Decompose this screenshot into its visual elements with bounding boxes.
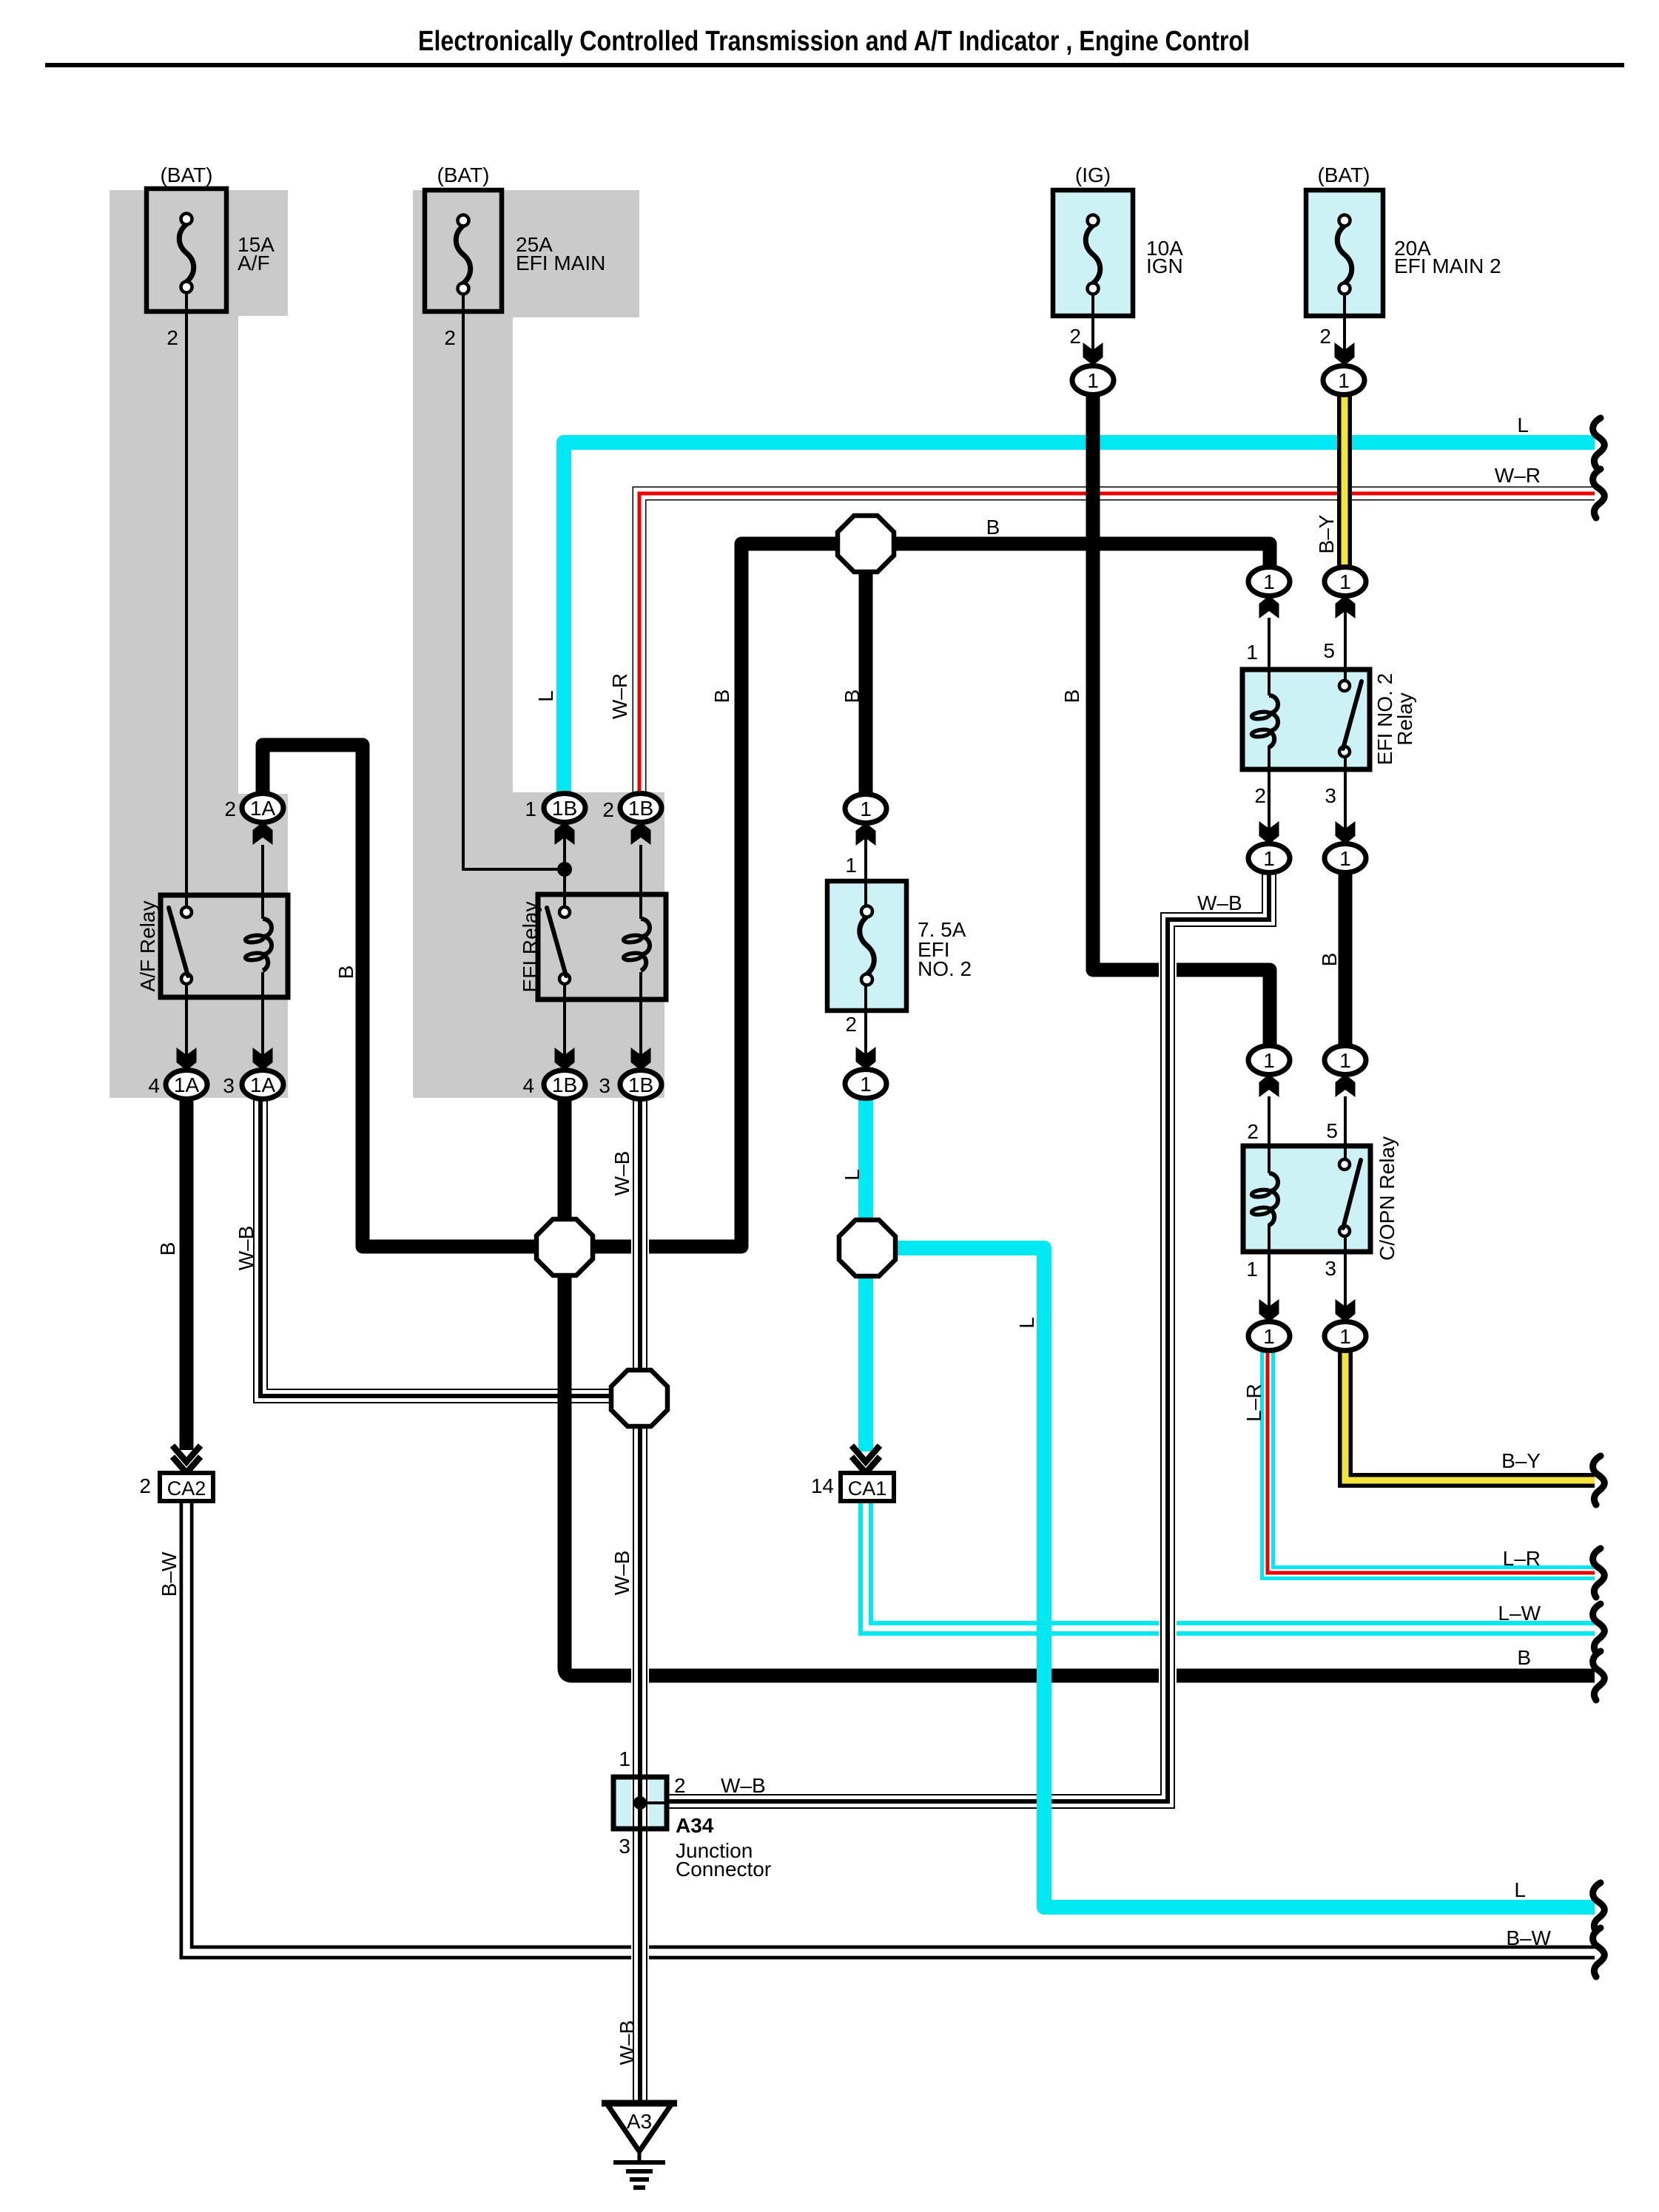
svg-text:W–B: W–B — [721, 1774, 766, 1797]
svg-text:B–Y: B–Y — [1501, 1449, 1541, 1472]
relay C/OPN coil — [1269, 1173, 1278, 1225]
arrow up into oval 1-1B — [555, 822, 575, 845]
svg-text:(IG): (IG) — [1075, 163, 1111, 186]
svg-text:1A: 1A — [174, 1073, 200, 1096]
fuse 7.5A EFI NO.2 fill — [827, 881, 906, 1011]
svg-text:2: 2 — [166, 326, 178, 349]
svg-text:4: 4 — [148, 1074, 160, 1097]
fuse 20A EFI MAIN 2 fill — [1306, 190, 1383, 316]
wire W-B: A/F relay pin3 oval down, corner right to octagon — [260, 1100, 641, 1396]
oval 1 below C/OPN pin1 — [1248, 1322, 1290, 1351]
wire: EFI NO.2 relay pin1 up — [1268, 618, 1271, 695]
wire: C/OPN relay pin2 up — [1268, 1096, 1271, 1173]
wire B-W: CA2 down, corner right to edge — [186, 1501, 1595, 1952]
oval 1 below EFI NO.2 pin3 — [1325, 844, 1366, 873]
wire B: octagon down to 7.5A fuse oval — [859, 544, 873, 802]
arrow down into oval above L-R — [1259, 1299, 1279, 1322]
oval 1 above C/OPN pin5 — [1325, 1046, 1366, 1075]
svg-text:1: 1 — [1339, 1325, 1351, 1348]
wire L: main horizontal from corner to edge, down to EFI relay pin1 oval — [564, 442, 1595, 802]
svg-text:L–R: L–R — [1242, 1383, 1265, 1421]
ground A3 — [606, 2103, 673, 2151]
svg-text:1: 1 — [1263, 847, 1275, 870]
svg-text:1: 1 — [1339, 847, 1351, 870]
svg-text:B–W: B–W — [1506, 1926, 1551, 1949]
svg-text:1: 1 — [619, 1747, 630, 1770]
wire: C/OPN relay pin1 down — [1268, 1224, 1271, 1322]
relay EFI coil — [641, 919, 650, 971]
arrow down into oval 3-1B — [631, 1048, 651, 1070]
svg-text:1A: 1A — [250, 1073, 276, 1096]
fuse 15A A/F — [147, 189, 226, 311]
wire W-R: EFI relay pin2 oval up, corner right to edge — [639, 493, 1595, 802]
svg-text:2: 2 — [444, 326, 456, 349]
svg-text:EFI MAIN 2: EFI MAIN 2 — [1394, 254, 1501, 277]
wire B overlay: EFI pin4 feed crossing W-B horizontal — [558, 1369, 572, 1424]
oval 1 above C/OPN pin2 — [1248, 1046, 1290, 1075]
svg-text:L–R: L–R — [1503, 1547, 1541, 1570]
svg-text:2: 2 — [1247, 1120, 1259, 1143]
wire: A/F relay pin4 down — [185, 982, 188, 1070]
svg-text:W–B: W–B — [235, 1226, 258, 1271]
connector CA1 — [841, 1473, 894, 1501]
continuation brace B-Y — [1593, 1456, 1605, 1505]
oval 3-1A — [242, 1070, 283, 1099]
svg-text:NO. 2: NO. 2 — [918, 957, 972, 980]
svg-text:1: 1 — [845, 854, 857, 877]
fuse 20A EFI MAIN 2 — [1306, 190, 1383, 316]
wire: A/F relay coil top — [261, 845, 264, 919]
wire B: EFI NO.2 relay pin3 oval down to C/OPN pin5 oval — [1339, 872, 1353, 1046]
arrow up into oval above 7.5A fuse — [856, 823, 876, 846]
oval 3-1B — [620, 1070, 662, 1099]
svg-text:(BAT): (BAT) — [1317, 163, 1370, 186]
relay A/F box — [161, 895, 288, 997]
relay EFI box — [538, 894, 666, 999]
grey harness area A/F — [110, 190, 288, 1098]
wire: fuse EFI MAIN pin2 down and right to junction dot — [463, 288, 565, 869]
wire L-W: CA1 down, corner right to edge — [866, 1501, 1595, 1628]
oval 1 above 7.5A fuse — [845, 795, 886, 823]
double chevron into CA1 — [852, 1446, 880, 1462]
svg-text:1: 1 — [1339, 570, 1351, 593]
arrow up into oval above EFI NO.2 pin1 — [1259, 596, 1279, 618]
oval 1 below 7.5A fuse — [845, 1070, 886, 1099]
arrow down into oval 3-1A — [253, 1048, 273, 1070]
arrow down into oval below EFI NO.2 pin2 — [1259, 821, 1279, 844]
svg-text:2: 2 — [139, 1474, 151, 1497]
wire B overlay: IGN feed crossing L and W-R — [1086, 403, 1100, 525]
wire L: 7.5A fuse oval down to CA1 — [858, 1098, 873, 1451]
svg-text:A/F: A/F — [238, 252, 270, 274]
double chevron into CA2 — [172, 1446, 201, 1462]
wire: A/F relay pin3 down — [261, 972, 264, 1070]
svg-text:B: B — [710, 689, 733, 704]
svg-text:2: 2 — [1069, 325, 1081, 348]
svg-text:1B: 1B — [628, 797, 653, 820]
svg-text:W–B: W–B — [610, 1551, 633, 1596]
svg-text:A/F Relay: A/F Relay — [136, 901, 159, 992]
continuation brace L-R — [1593, 1548, 1605, 1597]
continuation brace L-W — [1593, 1604, 1605, 1653]
svg-text:EFI MAIN: EFI MAIN — [516, 252, 605, 274]
svg-text:B: B — [1318, 953, 1341, 967]
wire: EFI NO.2 relay pin5 up — [1344, 596, 1347, 686]
wire W-B: EFI NO.2 relay pin2 oval down, jog left, down, corner left to A34 pin2 — [667, 871, 1269, 1801]
wire: EFI NO.2 relay pin3 down — [1344, 752, 1347, 844]
continuation brace L — [1593, 1883, 1605, 1932]
svg-text:W–R: W–R — [1495, 464, 1541, 487]
wire B-Y: C/OPN pin3 oval down, corner right to edge — [1345, 1351, 1595, 1480]
svg-text:1B: 1B — [552, 797, 577, 820]
oval 1 below EFI NO.2 pin2 — [1248, 844, 1290, 873]
arrow up into oval above EFI NO.2 pin5 — [1336, 596, 1356, 618]
oval 1 below C/OPN pin3 — [1325, 1322, 1366, 1351]
arrow down into oval above B-Y — [1336, 1299, 1356, 1322]
svg-text:1B: 1B — [628, 1073, 653, 1096]
svg-text:2: 2 — [674, 1774, 686, 1797]
svg-text:L–W: L–W — [1498, 1602, 1541, 1625]
junction octagon W-B — [611, 1370, 667, 1426]
continuation brace L — [1593, 418, 1605, 467]
relay EFI NO.2 switch — [1339, 681, 1350, 691]
svg-text:(BAT): (BAT) — [160, 163, 212, 186]
title underline — [45, 63, 1624, 67]
svg-text:1: 1 — [860, 1073, 872, 1096]
junction octagon L — [839, 1220, 895, 1276]
svg-text:2: 2 — [1254, 784, 1266, 807]
wire B: EFI relay pin4 down through octagon, corner right to edge — [565, 1100, 1595, 1676]
wire: 7.5A fuse pin2 down — [864, 979, 867, 1070]
junction dot EFI MAIN feed — [557, 862, 572, 877]
wire: fuse IGN pin2 — [1091, 289, 1094, 370]
arrow up into oval above C/OPN pin5 — [1336, 1074, 1356, 1097]
wire B-Y: fuse EFI MAIN 2 oval down to EFI NO.2 pin5 oval — [1337, 394, 1352, 567]
relay EFI NO.2 coil — [1269, 695, 1278, 747]
svg-text:4: 4 — [522, 1074, 534, 1097]
svg-text:B: B — [1060, 689, 1083, 704]
wire: EFI NO.2 relay pin2 down — [1268, 746, 1271, 844]
svg-text:CA1: CA1 — [848, 1477, 887, 1500]
svg-text:Connector: Connector — [676, 1858, 771, 1881]
relay EFI NO.2 fill — [1242, 670, 1370, 769]
oval 2-1B — [620, 794, 662, 823]
arrow down into oval below 7.5A fuse — [856, 1047, 876, 1070]
svg-text:1: 1 — [1338, 369, 1350, 392]
svg-text:B: B — [334, 965, 357, 979]
oval 1 above EFI NO.2 pin5 — [1325, 567, 1366, 596]
svg-text:EFI Relay: EFI Relay — [519, 902, 542, 993]
svg-text:Electronically Controlled Tran: Electronically Controlled Transmission a… — [418, 26, 1250, 57]
svg-text:1: 1 — [1339, 1049, 1351, 1072]
wire B: fuse IGN oval down, corner right, down to C/OPN oval — [1093, 394, 1270, 1046]
wire: 7.5A fuse pin1 up — [864, 823, 867, 912]
svg-text:L: L — [534, 690, 557, 702]
relay A/F switch — [181, 907, 192, 917]
relay EFI NO.2 box — [1242, 670, 1370, 769]
svg-text:5: 5 — [1323, 639, 1335, 662]
continuation brace B — [1593, 1651, 1605, 1700]
svg-text:L: L — [1517, 414, 1529, 436]
svg-text:2: 2 — [224, 798, 236, 820]
svg-text:B–Y: B–Y — [1315, 514, 1338, 553]
svg-text:W–B: W–B — [610, 1151, 633, 1196]
arrow down into oval 4-1B — [555, 1048, 575, 1070]
wire L-R: C/OPN pin1 oval down, corner right to edge — [1268, 1351, 1595, 1573]
fuse 7.5A EFI NO.2 — [827, 881, 906, 1011]
svg-text:1: 1 — [1263, 570, 1275, 593]
svg-text:1: 1 — [1246, 641, 1258, 664]
arrow into oval below fuse IGN — [1083, 343, 1103, 365]
arrow up into oval 2-1B — [631, 822, 651, 845]
svg-text:1: 1 — [525, 798, 536, 820]
wire W-B: EFI relay pin3 oval down through octagon and A34 to ground — [631, 1100, 649, 2105]
connector CA2 — [160, 1473, 213, 1501]
svg-text:B: B — [841, 689, 864, 704]
wire: C/OPN relay pin5 up — [1344, 1096, 1347, 1164]
svg-text:B–W: B–W — [158, 1551, 181, 1596]
continuation brace B-W — [1593, 1928, 1605, 1977]
arrow up into oval 2-1A — [253, 822, 273, 845]
oval 1 below IGN fuse — [1072, 366, 1114, 395]
arrow down into oval 4-1A — [177, 1048, 197, 1070]
arrow into oval below fuse EFI MAIN 2 — [1335, 343, 1355, 365]
svg-text:1: 1 — [1246, 1258, 1258, 1281]
arrow down into oval below EFI NO.2 pin3 — [1336, 821, 1356, 844]
svg-text:3: 3 — [599, 1074, 610, 1097]
junction octagon B top — [838, 516, 894, 572]
junction connector A34 box — [613, 1777, 667, 1829]
svg-text:3: 3 — [1325, 1257, 1336, 1280]
junction octagon B lower — [536, 1219, 593, 1275]
wire: EFI relay pin1 up to oval 1B — [563, 823, 566, 912]
svg-text:A3: A3 — [627, 2110, 652, 2133]
svg-text:(BAT): (BAT) — [437, 163, 489, 186]
wire B: A/F relay pin2 oval up over to EFI relay pin4 column — [263, 544, 1270, 1247]
arrow up into oval above C/OPN pin2 — [1259, 1074, 1279, 1097]
svg-text:B: B — [1517, 1646, 1531, 1669]
wire: fuse EFI MAIN 2 pin2 — [1343, 289, 1346, 370]
svg-text:W–B: W–B — [1197, 891, 1242, 914]
relay C/OPN box — [1243, 1146, 1370, 1252]
svg-text:L: L — [1015, 1317, 1038, 1329]
wire B: A/F relay pin4 oval down to CA2 — [180, 1100, 194, 1450]
svg-text:2: 2 — [845, 1013, 857, 1036]
svg-text:1: 1 — [860, 798, 872, 820]
grey harness area EFI MAIN — [413, 190, 664, 1098]
svg-text:1A: 1A — [250, 797, 276, 820]
svg-text:1: 1 — [1263, 1049, 1275, 1072]
wire: EFI relay pin3 down — [639, 972, 642, 1070]
oval 4-1A — [166, 1070, 207, 1099]
relay EFI switch — [559, 907, 570, 917]
svg-text:A34: A34 — [676, 1814, 714, 1837]
relay A/F coil — [263, 919, 272, 971]
svg-text:Relay: Relay — [1393, 692, 1416, 746]
oval 4-1B — [544, 1070, 585, 1099]
svg-text:1B: 1B — [552, 1073, 577, 1096]
svg-text:3: 3 — [223, 1074, 235, 1097]
fuse 10A IGN — [1053, 190, 1133, 316]
svg-text:L: L — [841, 1169, 864, 1181]
svg-text:2: 2 — [602, 798, 614, 821]
oval 1-1B — [544, 794, 585, 823]
svg-text:L: L — [1514, 1878, 1526, 1901]
svg-text:3: 3 — [1325, 784, 1336, 807]
junction connector A34 fill — [613, 1777, 667, 1829]
svg-text:IGN: IGN — [1146, 254, 1183, 277]
svg-text:C/OPN Relay: C/OPN Relay — [1376, 1136, 1399, 1261]
wire: C/OPN relay pin3 down — [1344, 1231, 1347, 1322]
svg-text:CA2: CA2 — [167, 1477, 206, 1500]
svg-text:14: 14 — [811, 1474, 834, 1497]
relay C/OPN switch — [1339, 1159, 1350, 1170]
oval 1 above EFI NO.2 pin1 — [1248, 567, 1290, 596]
svg-text:B: B — [986, 516, 1000, 539]
fuse 25A EFI MAIN — [425, 190, 502, 311]
svg-text:1: 1 — [1263, 1325, 1275, 1348]
continuation brace W-R — [1593, 469, 1605, 518]
fuse 10A IGN fill — [1053, 190, 1133, 316]
svg-text:3: 3 — [619, 1835, 630, 1858]
oval 2-1A — [242, 794, 283, 823]
wire L: octagon right, down, corner right to edge — [866, 1248, 1595, 1907]
wire: fuse A/F pin2 to A/F relay pin1 — [185, 288, 188, 909]
svg-text:2: 2 — [1319, 325, 1331, 348]
svg-text:5: 5 — [1326, 1119, 1338, 1142]
wire: EFI relay pin4 down — [563, 982, 566, 1070]
wire: EFI relay coil top — [639, 845, 642, 919]
svg-text:1: 1 — [1087, 369, 1099, 392]
oval 1 below EFI MAIN 2 fuse — [1323, 366, 1364, 395]
svg-text:W–B: W–B — [616, 2020, 639, 2066]
svg-text:B: B — [156, 1242, 179, 1256]
svg-text:W–R: W–R — [608, 673, 631, 719]
relay C/OPN fill — [1243, 1146, 1370, 1252]
